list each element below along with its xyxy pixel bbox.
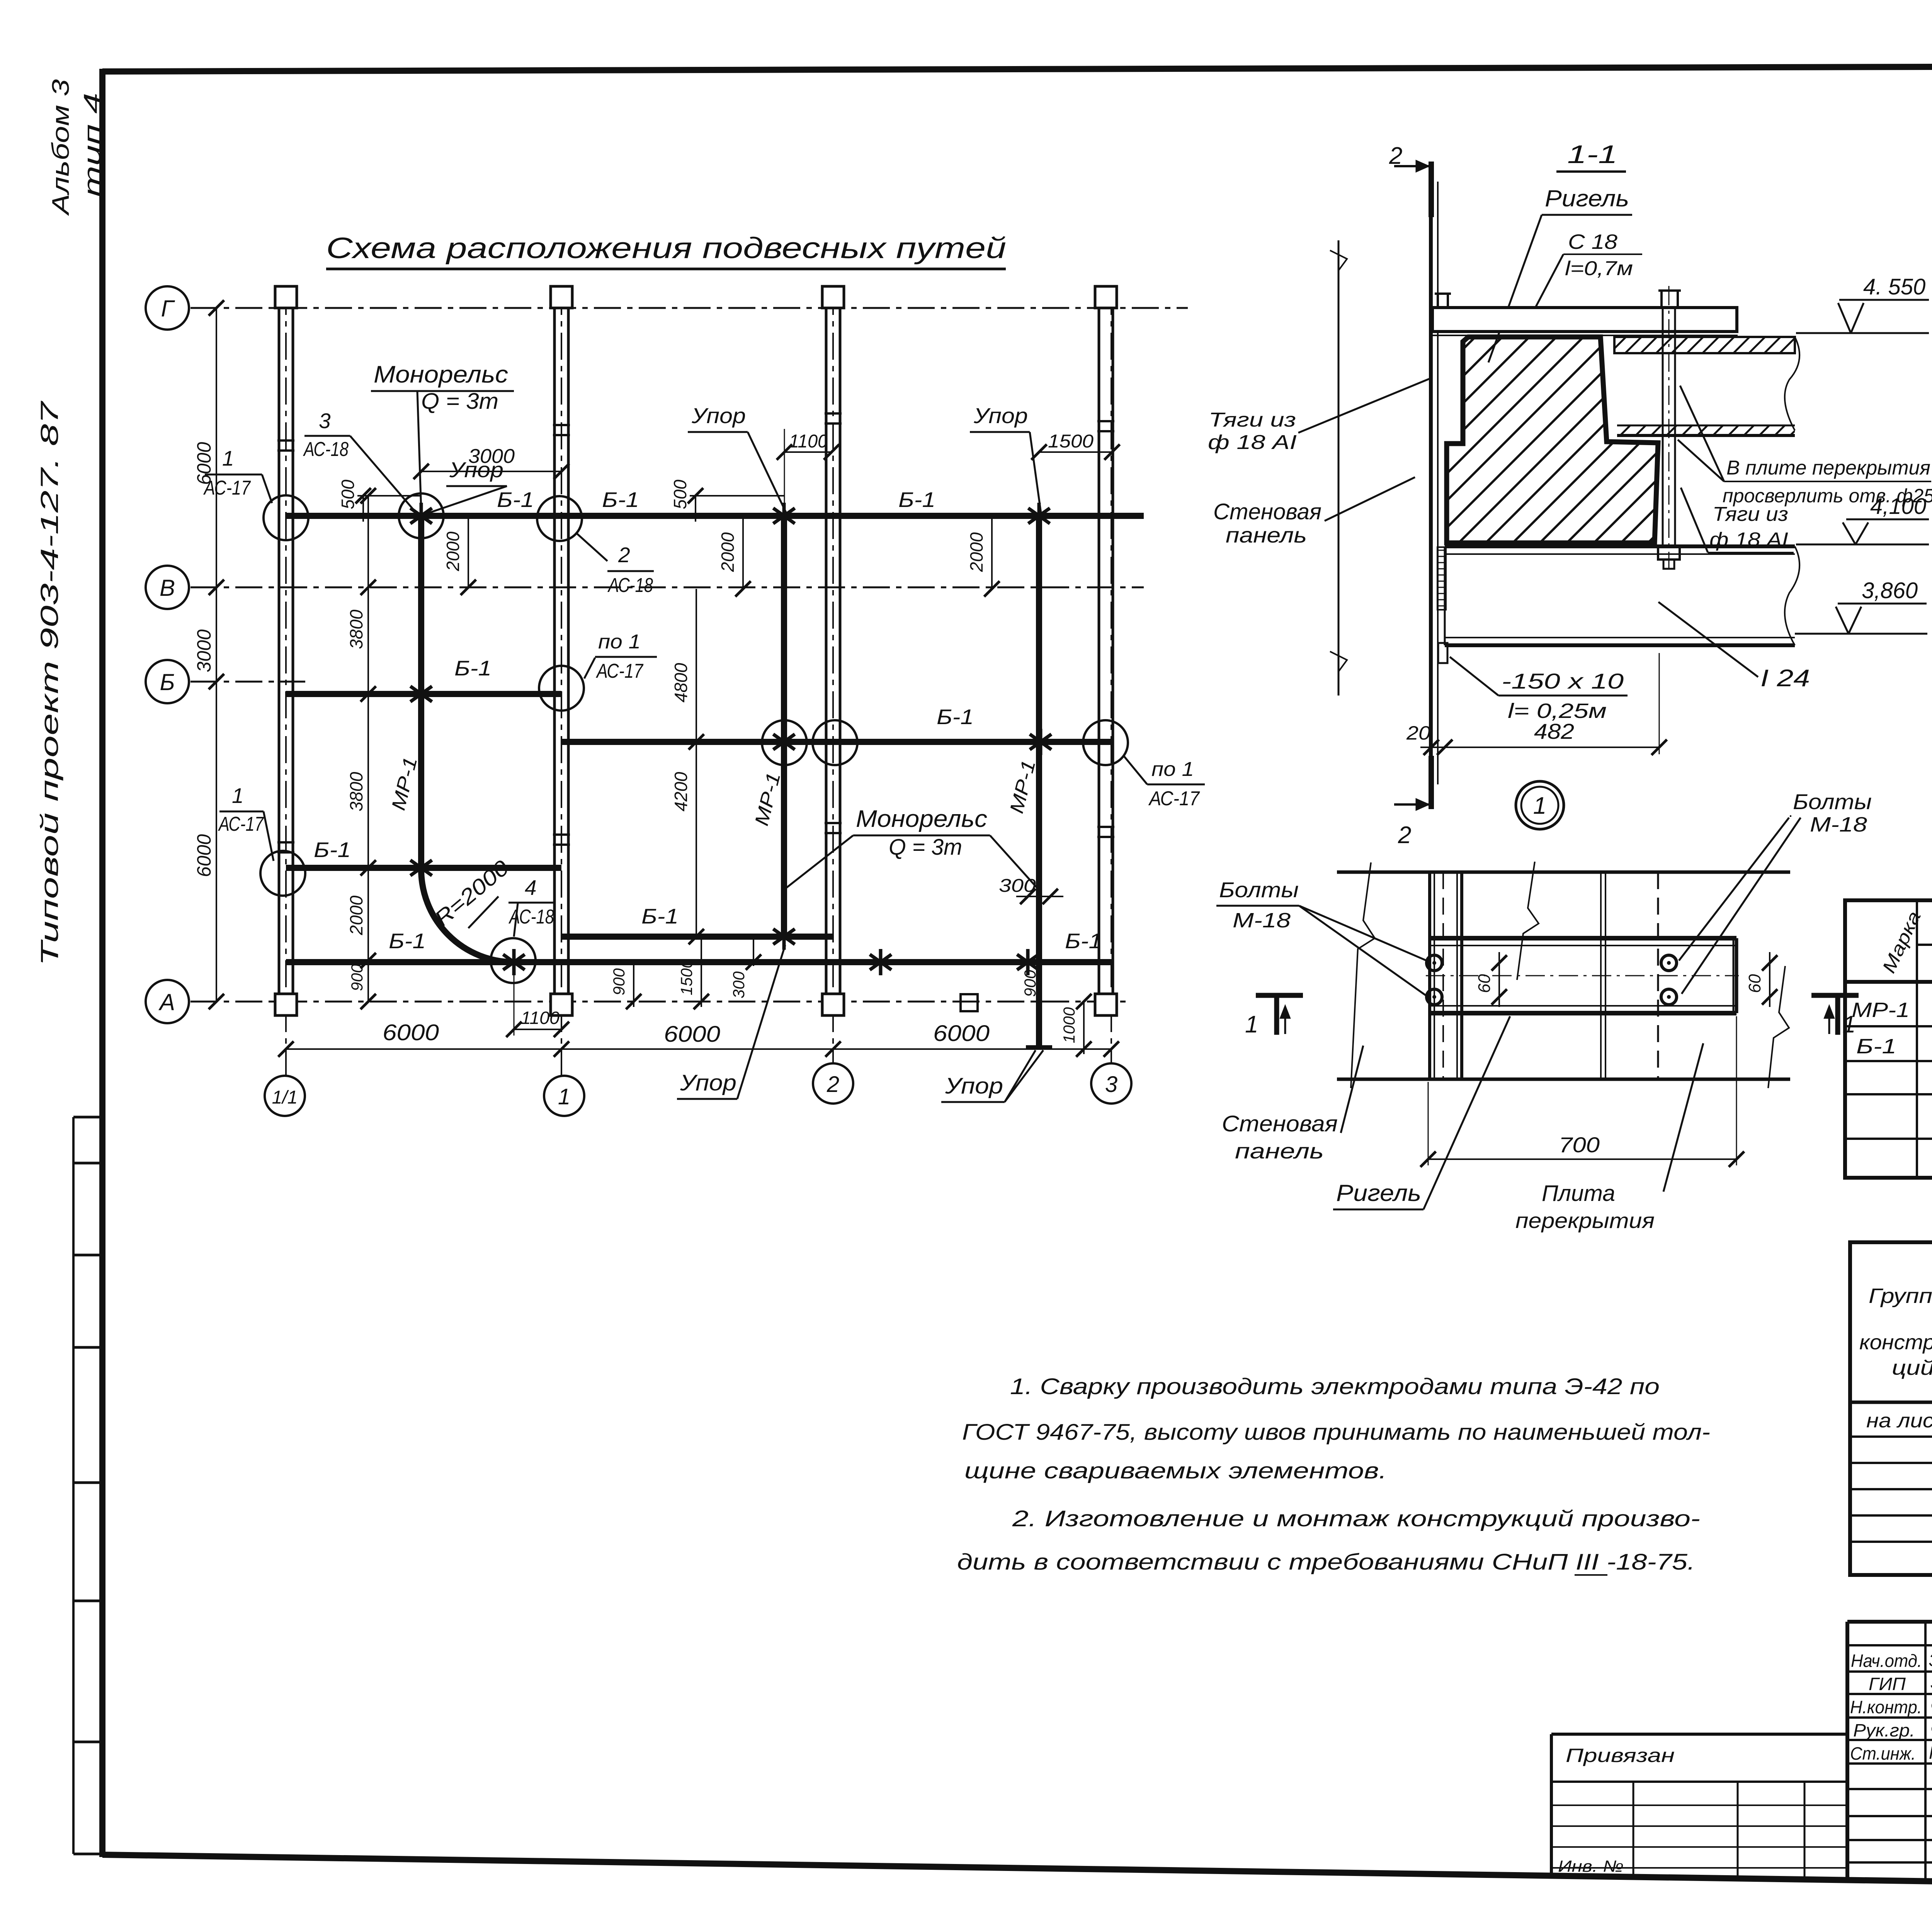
svg-text:по 1: по 1 [598, 631, 641, 653]
section mark 1 right [1811, 995, 1859, 1038]
bolt on plate left [1435, 294, 1451, 308]
label Упор bottom left [677, 945, 785, 1099]
dim 4800 [671, 589, 704, 750]
dim 482 and 20 [1406, 653, 1667, 755]
svg-text:4. 550: 4. 550 [1863, 274, 1925, 299]
dim 1500 upper [1031, 431, 1120, 460]
label С18 l=0.7м [1531, 230, 1642, 316]
labels Б-1 [314, 488, 1102, 953]
svg-text:482: 482 [1534, 719, 1574, 743]
svg-text:900: 900 [1021, 969, 1039, 997]
svg-text:Схема расположения подвесных: Схема расположения подвесных путей [326, 232, 1006, 265]
dim 500 right [670, 480, 784, 522]
svg-text:1100: 1100 [521, 1008, 560, 1028]
label Болты М-18 left [1216, 878, 1427, 995]
svg-text:Золотов: Золотов [1930, 1672, 1932, 1692]
axis circle Б [146, 660, 189, 703]
axis circle 2 [813, 1063, 853, 1104]
svg-text:6000: 6000 [933, 1021, 990, 1046]
notes paragraph [957, 1374, 1710, 1575]
plan title Схема расположения подвесных путей [326, 232, 1006, 269]
svg-text:1-1: 1-1 [1567, 140, 1617, 168]
svg-text:4: 4 [525, 876, 537, 900]
svg-text:3: 3 [1105, 1072, 1117, 1097]
svg-text:Б-1: Б-1 [314, 838, 351, 862]
svg-text:1. Сварку производить электрод: 1. Сварку производить электродами типа Э… [1010, 1374, 1660, 1399]
axis line В [190, 587, 1144, 588]
svg-text:Типовой проект 903-4-127. 87: Типовой проект 903-4-127. 87 [36, 400, 63, 966]
svg-text:Б-1: Б-1 [1856, 1035, 1896, 1058]
dim 3000 upper [413, 445, 569, 479]
svg-text:2000: 2000 [718, 532, 738, 572]
svg-text:2: 2 [618, 543, 630, 567]
axis circle 1 [544, 1076, 584, 1116]
dim 300 right monorail [999, 876, 1063, 904]
label I 24 [1658, 602, 1810, 692]
svg-text:60: 60 [1745, 974, 1764, 993]
svg-text:20: 20 [1406, 722, 1430, 744]
label Болты М-18 right [1679, 789, 1872, 994]
left margin stamp boxes [73, 1117, 102, 1854]
floor slab right section 1-1 [1614, 337, 1799, 435]
axis line Б [190, 681, 305, 683]
section cut 2 top [1389, 143, 1431, 217]
svg-text:3000: 3000 [468, 445, 515, 468]
label Стеновая панель section 1-1 [1213, 477, 1415, 547]
svg-text:щине свариваемых элементов.: щине свариваемых элементов. [964, 1458, 1387, 1483]
axis line 3 vertical [1111, 288, 1112, 1063]
beam Б-1 left above Б [286, 691, 561, 697]
svg-text:6000: 6000 [383, 1020, 439, 1045]
svg-text:1/1: 1/1 [272, 1087, 298, 1108]
label Упор 1 [428, 457, 507, 513]
table Ведомость headers [1879, 907, 1932, 980]
svg-text:1100: 1100 [789, 431, 828, 452]
svg-text:Б-1: Б-1 [1065, 929, 1102, 953]
svg-text:3800: 3800 [346, 772, 366, 811]
svg-text:3800: 3800 [346, 609, 366, 649]
svg-text:Болты: Болты [1219, 878, 1299, 902]
svg-text:МР-1: МР-1 [1852, 998, 1910, 1022]
svg-text:Упор: Упор [691, 403, 746, 428]
beam Б-1 right below Б [561, 739, 1111, 745]
svg-text:Упор: Упор [973, 403, 1028, 428]
dim 4200 [671, 742, 704, 944]
svg-text:Упор: Упор [680, 1070, 736, 1095]
bolts М-18 node detail [1427, 955, 1677, 1005]
svg-text:1: 1 [232, 784, 244, 808]
svg-text:1: 1 [1245, 1011, 1258, 1038]
svg-text:2: 2 [827, 1072, 839, 1097]
svg-text:Н.контр.: Н.контр. [1850, 1697, 1922, 1717]
junction marks on monorails [410, 503, 1051, 975]
svg-text:4,100: 4,100 [1870, 494, 1926, 519]
material table grid [1850, 1242, 1932, 1575]
svg-text:1500: 1500 [1048, 431, 1094, 452]
svg-text:АС-17: АС-17 [1148, 787, 1200, 810]
label Тяги из ф18АI left [1208, 379, 1430, 454]
svg-text:А: А [158, 989, 175, 1015]
axis line 1/1 vertical [285, 288, 287, 1076]
svg-text:2000: 2000 [346, 895, 366, 935]
title block signature texts [1850, 1650, 1932, 1764]
svg-text:I 24: I 24 [1760, 665, 1810, 692]
label 3/АС-18 [303, 409, 416, 512]
svg-text:Упор: Упор [945, 1073, 1003, 1099]
top support plate section 1-1 [1432, 308, 1738, 335]
svg-text:Тяги из: Тяги из [1209, 409, 1296, 431]
label по 1/АС-17 middle [584, 631, 657, 682]
svg-text:перекрытия: перекрытия [1515, 1208, 1655, 1233]
svg-text:Стеновая: Стеновая [1213, 499, 1321, 524]
label R=2000 [430, 855, 514, 931]
monorail МР-1 left with curve R=2000 [421, 516, 514, 962]
svg-text:Ригель: Ригель [1545, 185, 1629, 211]
svg-text:дить в соответствии с требован: дить в соответствии с требованиями СНиП … [957, 1549, 1695, 1575]
svg-text:Плита: Плита [1542, 1181, 1615, 1206]
wall panel band node detail [1337, 862, 1790, 1088]
svg-text:по 1: по 1 [1151, 758, 1194, 781]
inner dim chain 3800 3800 2000 900 [346, 488, 376, 1009]
svg-text:АС-18: АС-18 [303, 438, 349, 461]
node circle 1 [1516, 781, 1564, 829]
label Стеновая панель node detail [1222, 1046, 1363, 1163]
svg-text:1: 1 [558, 1084, 570, 1109]
svg-text:АС-17: АС-17 [596, 660, 644, 682]
svg-text:В: В [160, 575, 175, 601]
svg-text:Q = 3т: Q = 3т [421, 389, 498, 414]
axis circle А [146, 980, 189, 1023]
label Упор bottom [941, 1050, 1043, 1102]
section cut 2 bottom [1394, 756, 1431, 849]
axis line 1 vertical [561, 288, 562, 1076]
svg-text:2: 2 [1398, 822, 1411, 849]
label 1/АС-17 lower [218, 784, 274, 861]
beam Б-1 left middle [286, 865, 561, 871]
left dim chain 6000 3000 6000 [193, 300, 224, 1009]
table Ведомость data rows [1852, 995, 1932, 1058]
svg-text:Б-1: Б-1 [454, 656, 492, 680]
svg-text:Ригель: Ригель [1336, 1180, 1421, 1206]
dim 1100 upper [777, 429, 839, 514]
svg-text:Нач.отд.: Нач.отд. [1851, 1651, 1922, 1671]
dim 1100 bottom [506, 966, 569, 1037]
dim 1000 bottom right [1060, 994, 1092, 1057]
label Монорельс Q=3т upper [371, 361, 514, 510]
label Упор 2 [688, 403, 786, 513]
svg-text:l=0,7м: l=0,7м [1565, 257, 1633, 280]
svg-text:Б-1: Б-1 [641, 904, 679, 928]
wall panel outer line section 1-1 [1330, 240, 1347, 696]
svg-text:6000: 6000 [664, 1022, 720, 1047]
svg-text:Б-1: Б-1 [898, 488, 935, 512]
svg-text:4800: 4800 [671, 663, 691, 702]
svg-text:С 18: С 18 [1568, 230, 1617, 253]
svg-text:Тяги из: Тяги из [1713, 503, 1788, 526]
svg-text:Б-1: Б-1 [497, 488, 534, 512]
material table data row на листе [1866, 1410, 1932, 1434]
svg-text:4200: 4200 [671, 772, 691, 811]
svg-text:панель: панель [1226, 523, 1307, 547]
svg-text:панель: панель [1235, 1139, 1324, 1163]
svg-text:ций: ций [1892, 1356, 1932, 1379]
svg-text:6000: 6000 [193, 442, 215, 485]
svg-text:Пугачева: Пугачева [1929, 1743, 1932, 1763]
dim 700 node detail [1420, 1016, 1744, 1167]
svg-text:2000: 2000 [443, 531, 463, 571]
node reference circles on plan [260, 493, 1128, 983]
svg-text:Б-1: Б-1 [937, 705, 974, 729]
svg-text:М-18: М-18 [1233, 909, 1291, 932]
svg-text:АС-18: АС-18 [607, 574, 653, 597]
svg-text:ф 18 АI: ф 18 АI [1709, 529, 1788, 551]
svg-text:900: 900 [348, 964, 366, 991]
section mark 1 left [1245, 995, 1303, 1038]
svg-text:3000: 3000 [193, 629, 215, 672]
label Тяги из ф18АI right [1681, 488, 1794, 553]
svg-text:ГИП: ГИП [1869, 1674, 1906, 1694]
label Ригель section 1-1 [1488, 185, 1632, 362]
svg-text:2000: 2000 [966, 532, 986, 572]
label Монорельс Q=3т lower [785, 806, 1038, 889]
svg-text:АС-17: АС-17 [218, 813, 264, 835]
svg-text:300: 300 [730, 971, 748, 998]
monorail МР-1 middle [781, 516, 787, 937]
dim 2000 col2 [718, 516, 751, 597]
title block привязан section [1551, 1734, 1847, 1879]
svg-text:Инв. №: Инв. № [1558, 1857, 1624, 1875]
tie rod section 1-1 [1663, 286, 1675, 568]
svg-text:3: 3 [319, 409, 331, 433]
svg-text:Монорельс: Монорельс [374, 361, 508, 388]
axis line 2 vertical [832, 288, 834, 1063]
svg-text:500: 500 [338, 480, 358, 509]
label Плита перекрытия node detail [1515, 1043, 1703, 1233]
axis line Г [190, 307, 1188, 309]
svg-text:1000: 1000 [1060, 1007, 1078, 1043]
svg-text:1: 1 [222, 446, 234, 470]
axis circle Г [146, 286, 189, 330]
bottom dimension line 6000x3 [278, 1020, 1119, 1057]
svg-text:Б-1: Б-1 [389, 929, 426, 953]
svg-text:тип 4: тип 4 [79, 93, 106, 197]
svg-text:500: 500 [670, 480, 690, 509]
label Ригель node detail [1333, 1016, 1510, 1209]
svg-text:ф 18 АI: ф 18 АI [1208, 431, 1297, 454]
wall panel inner lines section 1-1 [1431, 176, 1438, 784]
small square mark [961, 994, 978, 1011]
svg-text:6000: 6000 [193, 834, 215, 877]
svg-text:Монорельс: Монорельс [856, 806, 987, 832]
svg-text:Захаревский: Захаревский [1929, 1650, 1932, 1670]
tie rod bolt top [1658, 291, 1681, 308]
beam Б-1 bottom above А [286, 959, 1113, 965]
label Упор 3 [970, 403, 1041, 513]
dim 900 bottom right [1021, 969, 1039, 997]
weld plate -150x10 [1437, 547, 1447, 663]
material table headers [1859, 1252, 1932, 1398]
svg-text:Привязан: Привязан [1566, 1745, 1675, 1766]
monorail МР-1 right [1026, 516, 1052, 1048]
svg-text:на листе: на листе [1866, 1410, 1932, 1432]
svg-text:Б: Б [160, 669, 175, 695]
section 1-1 title [1556, 140, 1626, 172]
label В плите перекрытия просверлить отв ф25 [1678, 386, 1932, 507]
svg-text:Группа: Группа [1869, 1284, 1932, 1308]
margin text Типовой проект [36, 400, 63, 966]
beam Б-1 row axis between Г and В [286, 513, 1144, 519]
label 1/АС-17 upper [203, 446, 272, 503]
dim 2000 col1 [443, 516, 476, 595]
svg-text:конструк-: конструк- [1859, 1331, 1932, 1354]
svg-text:ГОСТ 9467-75, высоту швов прин: ГОСТ 9467-75, высоту швов принимать по н… [962, 1420, 1710, 1445]
svg-text:Рук.гр.: Рук.гр. [1853, 1720, 1915, 1740]
svg-text:Г: Г [161, 296, 175, 321]
svg-text:1500: 1500 [677, 959, 696, 995]
dim 2000 col3 [966, 516, 1000, 597]
svg-text:Стеновая: Стеновая [1222, 1111, 1338, 1136]
svg-text:2: 2 [1389, 143, 1402, 169]
beam channel plan node detail [1426, 938, 1739, 1013]
svg-text:Ст.инж.: Ст.инж. [1850, 1743, 1916, 1764]
label по 1/АС-17 right [1124, 756, 1205, 810]
labels МР-1 rotated [387, 755, 1039, 828]
label -150x10 l=0.25м [1450, 657, 1628, 723]
label 4/АС-18 [509, 876, 554, 937]
svg-text:Альбом 3: Альбом 3 [48, 79, 74, 216]
svg-text:1: 1 [1533, 793, 1546, 819]
svg-text:Фролова: Фролова [1930, 1696, 1932, 1716]
svg-text:900: 900 [610, 968, 628, 995]
I-beam I24 section 1-1 [1445, 546, 1799, 645]
dim 60 left node [1475, 952, 1507, 1007]
axis circle В [146, 566, 189, 609]
column axis 3 [1095, 286, 1117, 1015]
svg-text:Болты: Болты [1793, 789, 1872, 814]
svg-text:3,860: 3,860 [1862, 578, 1918, 603]
label 2/АС-18 [577, 533, 654, 597]
svg-text:-150 x 10: -150 x 10 [1502, 669, 1624, 693]
title block signature table [1847, 1622, 1932, 1885]
wall verticals node detail [1430, 872, 1658, 1079]
margin text Альбом 3 / тип 4 [48, 79, 106, 216]
svg-text:700: 700 [1559, 1133, 1600, 1157]
dim 500 left [338, 480, 421, 522]
column axis 1/1 [275, 286, 297, 1015]
table Ведомость элементов grid [1845, 900, 1932, 1178]
svg-text:В плите перекрытия: В плите перекрытия [1726, 457, 1930, 479]
column axis 2 [822, 286, 844, 1015]
svg-text:Q = 3т: Q = 3т [889, 835, 962, 860]
axis circle 1/1 [265, 1076, 305, 1116]
dims 900 1500 300 bottom middle [610, 937, 761, 1009]
svg-text:2. Изготовление и монтаж конс: 2. Изготовление и монтаж конструкций про… [1012, 1506, 1700, 1531]
axis circle 3 [1091, 1063, 1131, 1104]
axis line А [190, 1001, 1128, 1003]
dim 60 right node [1745, 952, 1777, 1007]
svg-text:Б-1: Б-1 [602, 488, 639, 512]
ригель concrete beam hatched [1447, 337, 1658, 543]
beam Б-1 middle between 1 and 2 [561, 934, 833, 940]
svg-text:60: 60 [1475, 974, 1494, 993]
svg-text:М-18: М-18 [1810, 813, 1867, 836]
svg-text:Фролова: Фролова [1930, 1719, 1932, 1739]
tie rod nut bottom [1658, 546, 1680, 569]
column axis 1 [551, 286, 572, 1015]
